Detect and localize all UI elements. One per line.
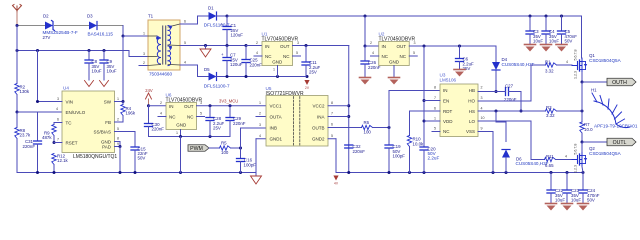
capacitor C16 xyxy=(240,148,242,159)
wire VIN vert xyxy=(16,26,18,84)
svg-text:LM5180QNGU/TQ1: LM5180QNGU/TQ1 xyxy=(73,154,117,160)
wire neg rail xyxy=(217,76,308,78)
svg-text:100: 100 xyxy=(221,150,229,155)
svg-text:5: 5 xyxy=(413,51,415,55)
svg-text:CUS05S40,H3F: CUS05S40,H3F xyxy=(516,161,549,166)
svg-text:LO: LO xyxy=(469,119,476,124)
svg-text:2: 2 xyxy=(259,112,261,116)
svg-text:4: 4 xyxy=(160,112,162,116)
wire OUTL xyxy=(582,141,607,143)
wire HB xyxy=(478,91,496,93)
capacitor C7 xyxy=(226,46,228,58)
wire RDT xyxy=(410,110,441,112)
wire VIN to U4 xyxy=(38,101,63,103)
wire source Q2 xyxy=(582,167,583,173)
wire D6 branch xyxy=(495,111,497,122)
svg-text:50V: 50V xyxy=(138,156,146,161)
wire VSS down xyxy=(478,131,493,133)
wire R4 to FB xyxy=(122,116,124,123)
svg-text:PAD: PAD xyxy=(102,144,112,149)
wire D3 to corner xyxy=(98,25,123,27)
svg-text:10.0: 10.0 xyxy=(584,127,593,132)
U1 GND wire xyxy=(277,66,279,77)
U6 stubs xyxy=(158,116,166,118)
net flag OUTH xyxy=(607,78,636,86)
svg-text:CUS05S40,H3F: CUS05S40,H3F xyxy=(502,62,535,67)
node T1 primary top xyxy=(122,35,125,38)
wire R10 to rail xyxy=(409,147,411,173)
svg-text:220nF: 220nF xyxy=(353,149,366,154)
svg-text:OUT: OUT xyxy=(280,44,290,49)
svg-text:4: 4 xyxy=(566,60,568,64)
wire D4 to HB node xyxy=(495,71,497,92)
svg-text:8: 8 xyxy=(331,101,333,105)
svg-text:HS: HS xyxy=(469,109,475,114)
capacitor C3 xyxy=(529,16,531,31)
capacitor C26 xyxy=(364,46,366,61)
capacitor C25 xyxy=(245,46,247,60)
svg-text:SW: SW xyxy=(104,99,112,104)
svg-text:100pF: 100pF xyxy=(393,153,406,158)
svg-text:R11: R11 xyxy=(546,154,554,159)
ground under C22 xyxy=(546,203,557,205)
capacitor C28 xyxy=(209,106,211,118)
svg-text:VIN: VIN xyxy=(66,99,74,104)
svg-text:CSD18504Q5A: CSD18504Q5A xyxy=(589,151,622,156)
wire GND PAD U4 xyxy=(115,141,121,143)
wire U2 OUT xyxy=(409,45,496,47)
IC U6 TLV70450 box xyxy=(166,103,197,130)
svg-text:10uF: 10uF xyxy=(107,68,117,73)
svg-text:10uF: 10uF xyxy=(549,38,559,43)
wire OUTB to R6 xyxy=(328,127,362,129)
transistor Q1 xyxy=(572,65,578,67)
T1 primary winding xyxy=(157,38,160,45)
resistor R11 xyxy=(545,157,556,161)
top 24V rail xyxy=(227,15,582,17)
wire node up to IN xyxy=(388,91,390,128)
wire R8 to gnd rail xyxy=(16,139,18,173)
svg-text:5: 5 xyxy=(434,127,436,131)
gnd rail primary xyxy=(17,172,256,174)
svg-text:OUTA: OUTA xyxy=(270,114,282,119)
svg-text:U4: U4 xyxy=(63,86,69,91)
capacitor C30 xyxy=(148,106,150,124)
svg-text:100: 100 xyxy=(364,130,372,135)
IC U4 LM5180 box xyxy=(62,91,115,153)
capacitor C6 xyxy=(459,46,461,59)
svg-text:5,6,7,8: 5,6,7,8 xyxy=(574,50,578,61)
T1 core xyxy=(162,26,164,64)
wire U6 OUT 3V3 xyxy=(197,105,267,107)
svg-text:NC: NC xyxy=(382,54,389,59)
IC U5 ISO7721 box xyxy=(266,96,328,147)
svg-text:220nF: 220nF xyxy=(233,121,246,126)
svg-text:LM5106: LM5106 xyxy=(440,77,457,82)
svg-text:R5: R5 xyxy=(221,141,227,146)
svg-text:VCC2: VCC2 xyxy=(312,104,325,109)
capacitor C24 xyxy=(582,173,584,191)
svg-text:IN: IN xyxy=(265,44,270,49)
svg-text:C27: C27 xyxy=(505,84,514,89)
diode D1 xyxy=(209,12,217,20)
wire node down SW net xyxy=(122,36,124,102)
svg-text:196k: 196k xyxy=(126,111,136,116)
wire EN xyxy=(423,46,425,147)
svg-text:R3: R3 xyxy=(546,105,552,110)
svg-text:3.32: 3.32 xyxy=(546,113,555,118)
svg-text:RSET: RSET xyxy=(66,140,78,145)
svg-text:NC: NC xyxy=(443,129,450,134)
svg-text:1: 1 xyxy=(143,31,145,35)
svg-text:TLV70450DBVR: TLV70450DBVR xyxy=(379,36,416,42)
svg-text:+: + xyxy=(221,22,224,27)
gnd rail iso xyxy=(336,172,583,174)
svg-text:5: 5 xyxy=(331,134,333,138)
capacitor C8 xyxy=(88,51,90,61)
node U6 IN xyxy=(147,104,150,107)
stub OUTA xyxy=(256,116,266,118)
svg-text:4: 4 xyxy=(372,51,374,55)
svg-text:HB: HB xyxy=(469,88,475,93)
wire 24Viso down to U5 xyxy=(348,46,350,173)
svg-text:1: 1 xyxy=(434,117,436,121)
resistor R9 xyxy=(52,125,56,136)
wire INA xyxy=(328,116,349,118)
wire HS xyxy=(478,110,546,112)
svg-text:1,2,3: 1,2,3 xyxy=(574,165,578,173)
wire VIN branch down xyxy=(37,51,39,102)
svg-text:D3: D3 xyxy=(87,14,93,19)
ground below rail xyxy=(251,176,262,184)
transistor Q2 xyxy=(572,159,578,161)
resistor R6 xyxy=(362,125,373,129)
svg-text:5,6,7,8: 5,6,7,8 xyxy=(574,144,578,155)
wire SW node xyxy=(115,101,124,103)
svg-text:OUTL: OUTL xyxy=(613,140,627,146)
svg-text:5: 5 xyxy=(117,127,119,131)
resistor R7 xyxy=(581,111,583,122)
svg-text:4: 4 xyxy=(184,60,186,64)
wire R3 to node xyxy=(557,110,583,112)
svg-text:+: + xyxy=(221,52,224,57)
svg-text:2: 2 xyxy=(481,86,483,90)
svg-text:1: 1 xyxy=(273,68,275,72)
svg-text:GND1: GND1 xyxy=(270,137,283,142)
wire T1 pin4 to D5 xyxy=(180,64,198,66)
zener diode D2 xyxy=(45,22,53,30)
svg-text:4: 4 xyxy=(565,155,567,159)
svg-text:10.0k: 10.0k xyxy=(413,141,425,146)
wire D2-D3 xyxy=(55,25,90,27)
wire 24Viso to D4 xyxy=(495,46,497,62)
wire TC xyxy=(54,122,62,124)
capacitor C20 xyxy=(420,146,428,148)
U5 isolation barrier xyxy=(293,97,295,146)
svg-text:D5: D5 xyxy=(204,67,210,72)
svg-text:CSD18504Q5A: CSD18504Q5A xyxy=(589,58,622,63)
wire input top rail xyxy=(17,25,45,27)
svg-text:10uF: 10uF xyxy=(555,197,565,202)
svg-text:50V: 50V xyxy=(587,197,595,202)
svg-text:APF19-T9-10CB/A01: APF19-T9-10CB/A01 xyxy=(594,123,638,128)
svg-text:NC: NC xyxy=(400,54,407,59)
svg-text:IN: IN xyxy=(382,44,387,49)
svg-text:D2: D2 xyxy=(43,14,49,19)
svg-text:4: 4 xyxy=(256,51,258,55)
T1 polarity dots xyxy=(156,37,159,40)
wire R11 to Q2 gate xyxy=(556,159,573,161)
U2 GND wire xyxy=(393,66,395,78)
capacitor C1 xyxy=(226,16,228,27)
svg-text:25V: 25V xyxy=(309,69,317,74)
svg-text:10uF: 10uF xyxy=(533,38,543,43)
power flag iso-gnd xyxy=(333,176,338,181)
svg-text:4: 4 xyxy=(56,107,58,111)
gnd subrail xyxy=(149,136,231,138)
capacitor C32 xyxy=(345,144,353,146)
svg-text:25V: 25V xyxy=(213,125,221,130)
svg-text:2: 2 xyxy=(256,41,258,45)
svg-text:SS/BIAS: SS/BIAS xyxy=(93,129,111,134)
ground under C24 xyxy=(578,203,589,205)
svg-text:3: 3 xyxy=(57,97,59,101)
wire drain Q2 xyxy=(581,142,583,153)
wire R2 to EN node xyxy=(16,95,18,113)
wire D1 out xyxy=(217,15,228,17)
svg-text:220nF: 220nF xyxy=(152,127,165,132)
svg-text:24V: 24V xyxy=(145,88,153,93)
wire R6 to node xyxy=(373,127,390,129)
svg-text:10: 10 xyxy=(481,116,485,120)
capacitor C4 xyxy=(545,16,547,31)
U6 GND wire xyxy=(180,130,182,137)
resistor R5 xyxy=(220,146,231,150)
svg-text:7: 7 xyxy=(434,96,436,100)
power flag -24V xyxy=(304,80,309,85)
transformer T1 box xyxy=(148,20,180,70)
ground under C26 xyxy=(360,77,371,79)
svg-text:BAS416,115: BAS416,115 xyxy=(88,31,114,36)
svg-text:ISO7721FDWVR: ISO7721FDWVR xyxy=(266,91,304,97)
wire T1 pin6 to D1 xyxy=(180,23,198,25)
IC U2 TLV70450 box xyxy=(379,42,410,66)
rail VIN mid xyxy=(17,50,129,52)
svg-text:1: 1 xyxy=(259,101,261,105)
svg-text:7: 7 xyxy=(331,112,333,116)
capacitor C29 xyxy=(229,106,231,118)
svg-text:2: 2 xyxy=(160,101,162,105)
wire C27 to HS xyxy=(520,92,522,112)
wire PWM to R5 xyxy=(209,147,220,149)
wire HO up xyxy=(478,100,531,102)
svg-text:3V3_MCU: 3V3_MCU xyxy=(219,98,238,103)
wire jog to T1 pin 3 xyxy=(128,51,130,57)
svg-text:DFLS1100-7: DFLS1100-7 xyxy=(204,83,230,88)
svg-text:6: 6 xyxy=(434,106,436,110)
svg-text:3: 3 xyxy=(481,96,483,100)
capacitor C27 xyxy=(505,88,507,96)
wire SS/BIAS to C15 xyxy=(115,131,136,133)
wire corner down to node xyxy=(122,26,124,37)
svg-text:INB: INB xyxy=(270,125,278,130)
svg-text:220nF: 220nF xyxy=(23,144,36,149)
svg-text:R1: R1 xyxy=(545,59,551,64)
wire mid to U1 IN xyxy=(246,45,262,47)
wire T1 pin5 mid xyxy=(180,45,246,47)
ground under U2 xyxy=(389,77,400,79)
svg-text:VSS: VSS xyxy=(466,129,475,134)
svg-text:OUTH: OUTH xyxy=(612,80,627,86)
ground under C5 xyxy=(556,44,567,46)
wire drain Q1 xyxy=(581,16,583,58)
wire R9 to RSET node xyxy=(53,136,55,143)
svg-text:OUT: OUT xyxy=(184,104,194,109)
wire R1 to Q1 gate xyxy=(557,64,573,66)
svg-text:RDT: RDT xyxy=(443,109,452,114)
svg-text:R6: R6 xyxy=(364,120,370,125)
wire 24V to U6 IN xyxy=(149,105,167,107)
svg-text:VDD: VDD xyxy=(443,119,453,124)
svg-text:1: 1 xyxy=(117,97,119,101)
svg-text:1: 1 xyxy=(176,131,178,135)
IC U1 TLV70450 box xyxy=(262,42,293,66)
svg-text:IN: IN xyxy=(169,104,174,109)
svg-text:3: 3 xyxy=(200,101,202,105)
capacitor C9 xyxy=(103,51,105,61)
wire gate line Q1 xyxy=(531,64,546,66)
capacitor C5 xyxy=(561,16,563,31)
U2 stubs xyxy=(371,55,379,57)
wire R5 to node xyxy=(231,147,241,149)
svg-text:3: 3 xyxy=(414,41,416,45)
svg-text:GND: GND xyxy=(272,60,283,65)
svg-text:2: 2 xyxy=(370,41,372,45)
svg-text:2: 2 xyxy=(143,61,145,65)
wire U2 IN branch xyxy=(364,16,366,46)
svg-text:NC: NC xyxy=(169,115,176,120)
svg-text:10uF: 10uF xyxy=(92,68,102,73)
diode D5 xyxy=(209,73,217,81)
wire GND2 xyxy=(328,138,336,140)
wire LO down xyxy=(478,120,531,122)
svg-text:120uF: 120uF xyxy=(231,32,244,37)
svg-text:12.1k: 12.1k xyxy=(57,158,69,163)
svg-text:5: 5 xyxy=(200,112,202,116)
svg-text:487k: 487k xyxy=(42,135,52,140)
svg-text:NC: NC xyxy=(265,54,272,59)
svg-text:D1: D1 xyxy=(208,6,214,11)
svg-text:HO: HO xyxy=(468,99,475,104)
wire GND1 down xyxy=(256,138,266,140)
svg-text:T1: T1 xyxy=(148,14,154,19)
wire OUTH xyxy=(582,81,607,83)
wire R12 to rail xyxy=(53,165,55,173)
svg-text:VCC1: VCC1 xyxy=(270,104,283,109)
ground under C6 xyxy=(454,69,465,71)
svg-text:3: 3 xyxy=(259,123,261,127)
capacitor C11 xyxy=(305,46,307,63)
wire VCC2 xyxy=(328,105,349,107)
svg-text:3: 3 xyxy=(143,52,145,56)
resistor R3 xyxy=(546,109,557,113)
resistor R10 xyxy=(407,136,411,147)
wire to T1 pin 1 xyxy=(123,35,148,37)
svg-text:NC: NC xyxy=(283,54,290,59)
svg-text:6: 6 xyxy=(57,118,59,122)
resistor R8 xyxy=(15,128,19,139)
svg-text:220nF: 220nF xyxy=(250,62,263,67)
svg-text:H1: H1 xyxy=(591,88,597,93)
svg-text:50V: 50V xyxy=(565,38,573,43)
svg-text:8: 8 xyxy=(117,137,119,141)
svg-text:TLV70450DBVR: TLV70450DBVR xyxy=(262,36,299,42)
resistor R2 xyxy=(15,84,19,95)
svg-text:3.32: 3.32 xyxy=(545,69,554,74)
capacitor C31 xyxy=(37,112,39,141)
wire Q1 to HS node xyxy=(581,82,583,111)
svg-text:2.2uF: 2.2uF xyxy=(428,156,440,161)
wire node to INB xyxy=(240,128,242,148)
svg-text:100pF: 100pF xyxy=(244,162,257,167)
svg-text:GND2: GND2 xyxy=(312,137,325,142)
T1 secondary windings xyxy=(168,26,171,31)
svg-text:IN: IN xyxy=(443,88,448,93)
svg-text:EN/UVLO: EN/UVLO xyxy=(66,110,86,115)
svg-text:6: 6 xyxy=(184,19,186,23)
capacitor C22 xyxy=(550,173,552,191)
svg-text:OUTB: OUTB xyxy=(312,125,325,130)
svg-text:TLV70450DBVR: TLV70450DBVR xyxy=(166,97,203,103)
svg-text:PWM: PWM xyxy=(190,146,203,152)
svg-text:4: 4 xyxy=(259,134,261,138)
svg-text:OUT: OUT xyxy=(397,44,407,49)
diode D3 xyxy=(89,22,97,30)
svg-text:EN: EN xyxy=(443,99,449,104)
IC U3 LM5106 box xyxy=(440,84,478,137)
svg-text:GND: GND xyxy=(176,123,187,128)
svg-text:10uF: 10uF xyxy=(571,197,581,202)
svg-text:750344660: 750344660 xyxy=(149,72,172,77)
gnd mid T1 xyxy=(205,46,207,50)
svg-text:5: 5 xyxy=(184,41,186,45)
svg-text:130k: 130k xyxy=(20,89,30,94)
svg-text:5: 5 xyxy=(296,51,298,55)
svg-text:TC: TC xyxy=(66,120,73,125)
U1 stubs xyxy=(254,55,262,57)
diode D6 xyxy=(502,150,510,158)
wire EN node down xyxy=(16,112,18,127)
resistor R4 xyxy=(122,102,124,105)
svg-text:9: 9 xyxy=(117,142,119,146)
power flag VIN (top-left) xyxy=(13,5,22,13)
svg-text:6: 6 xyxy=(331,123,333,127)
stub T1 pin 2 xyxy=(139,65,148,67)
resistor R1 xyxy=(546,63,557,67)
wire RSET xyxy=(54,142,62,144)
svg-text:120uF: 120uF xyxy=(230,62,243,67)
svg-text:7: 7 xyxy=(57,138,59,142)
wire U1 OUT xyxy=(293,45,349,47)
ground under C4 xyxy=(541,44,552,46)
ground under C23 xyxy=(562,203,573,205)
capacitor C23 xyxy=(566,173,568,191)
stub U3 NC xyxy=(432,131,440,133)
svg-text:2: 2 xyxy=(117,118,119,122)
ground under C3 xyxy=(525,44,536,46)
node EN xyxy=(16,111,19,114)
svg-text:GND: GND xyxy=(389,60,400,65)
